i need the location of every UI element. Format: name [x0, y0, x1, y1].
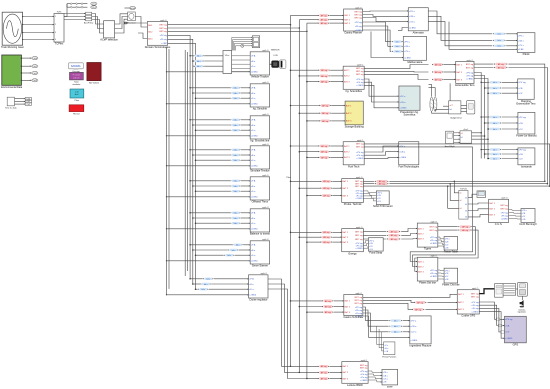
wire: [506, 39, 517, 41]
block Gadget Drive: [449, 101, 463, 120]
svg-text:cJ BKD: cJ BKD: [356, 85, 363, 87]
block Flapping Extensobile: [516, 79, 536, 106]
svg-text:cJ BK0: cJ BK0: [251, 166, 258, 168]
wire: [502, 149, 518, 151]
wire: [438, 229, 458, 231]
svg-text:AF sig: AF sig: [325, 311, 332, 314]
inline tags: [320, 120, 332, 123]
block gadget icon: [467, 101, 475, 114]
wire: [438, 275, 444, 277]
wire: [330, 145, 343, 147]
wire: [402, 45, 405, 47]
inline tags: [321, 194, 333, 197]
wire: [363, 243, 368, 245]
svg-text:AF sig: AF sig: [323, 236, 330, 239]
svg-text:cPh sig: cPh sig: [357, 82, 365, 84]
wire: [487, 128, 489, 130]
svg-text:BdT 2: BdT 2: [457, 72, 463, 74]
inline tags: [322, 311, 334, 314]
svg-text:bd.x: bd.x: [493, 82, 497, 84]
signal tag: [230, 217, 240, 220]
svg-text:wpth O: wpth O: [355, 292, 362, 295]
block Tigres: [417, 221, 438, 251]
wire: [363, 196, 376, 198]
svg-text:ChL2: ChL2: [33, 73, 38, 75]
signal tag: [230, 97, 240, 100]
svg-text:cP A: cP A: [251, 244, 256, 247]
wire: [330, 14, 344, 16]
wire: [428, 301, 458, 303]
svg-text:a3: a3: [460, 208, 462, 210]
svg-text:cJ BKD: cJ BKD: [356, 158, 363, 160]
block Town simulator: [70, 72, 84, 85]
wire: [15, 100, 26, 102]
svg-text:cJ BKD: cJ BKD: [501, 218, 508, 220]
svg-text:wpth O: wpth O: [501, 197, 508, 200]
wire: [403, 325, 410, 327]
wire net profout2: [389, 183, 547, 185]
inline tags: [319, 75, 331, 78]
svg-text:BRT sig: BRT sig: [430, 227, 438, 229]
svg-text:bd.x: bd.x: [197, 56, 201, 58]
wire: [330, 156, 343, 158]
wire: [435, 110, 448, 112]
svg-text:BdT 1: BdT 1: [418, 261, 424, 263]
wire: [67, 3, 87, 5]
wire: [330, 81, 343, 83]
junction: [290, 181, 292, 183]
wire to Presto: [377, 344, 384, 346]
svg-text:cPV sig: cPV sig: [519, 82, 527, 84]
junction: [547, 183, 549, 185]
block Preselection: [399, 86, 420, 117]
wire: [66, 4, 68, 7]
svg-text:BRT sig: BRT sig: [356, 71, 364, 73]
junction: [189, 87, 191, 89]
svg-text:bd.x: bd.x: [234, 223, 238, 225]
junction: [306, 31, 308, 33]
inline tags: [319, 69, 331, 72]
svg-text:Scientifica: Scientifica: [404, 113, 416, 117]
block middle Balance to transit: [250, 206, 270, 235]
svg-text:BdT 3: BdT 3: [343, 242, 349, 244]
svg-text:Environmental Data: Environmental Data: [1, 86, 23, 89]
svg-text:bd.x: bd.x: [202, 289, 206, 291]
block C.U.S.: [489, 197, 509, 226]
port tag: [130, 6, 136, 9]
wire: [243, 244, 250, 246]
wire: [364, 65, 428, 69]
wire: [196, 190, 231, 192]
wire: [461, 105, 467, 107]
wire: [15, 103, 26, 105]
svg-text:cPV sig: cPV sig: [466, 72, 474, 74]
junction: [299, 187, 301, 189]
inline tags: [322, 300, 334, 303]
signal tag: [230, 124, 240, 127]
svg-text:bd.x: bd.x: [234, 120, 238, 122]
svg-text:Plates Chit bite: Plates Chit bite: [442, 283, 460, 287]
junction: [290, 105, 292, 107]
svg-text:b4: b4: [465, 217, 467, 219]
svg-text:AF sig: AF sig: [321, 151, 328, 154]
gain marker: [81, 3, 83, 5]
wire: [479, 302, 504, 319]
svg-text:cPh sig: cPh sig: [501, 215, 509, 217]
svg-text:bd.x: bd.x: [234, 181, 238, 183]
block Casino Planner: [344, 6, 363, 34]
wire: [196, 159, 231, 161]
svg-text:TCPx25: TCPx25: [460, 188, 467, 190]
wire: [299, 112, 319, 114]
wire: [479, 305, 504, 325]
wire: [402, 50, 405, 52]
wire: [167, 165, 251, 167]
block Food Strap: [368, 238, 383, 255]
svg-text:bd.x: bd.x: [493, 154, 497, 156]
wire: [502, 153, 518, 155]
svg-text:wpth O: wpth O: [160, 19, 167, 22]
wire: [363, 30, 392, 51]
wire: [438, 237, 444, 239]
wire: [364, 70, 428, 73]
signal tag: [489, 153, 502, 156]
block Mathematica: [403, 36, 426, 64]
svg-text:cJ BKD: cJ BKD: [466, 78, 473, 80]
svg-text:b1: b1: [465, 197, 467, 199]
svg-text:BdT 2: BdT 2: [418, 233, 424, 235]
svg-text:BdT 2: BdT 2: [344, 20, 350, 22]
signal tag: [458, 225, 472, 228]
svg-text:cJ BK0: cJ BK0: [411, 340, 418, 342]
svg-text:bd.x: bd.x: [234, 150, 238, 152]
svg-text:cP A: cP A: [251, 212, 256, 215]
wire: [332, 236, 341, 238]
inline tags: [432, 63, 444, 66]
svg-text:BRT sig: BRT sig: [356, 144, 364, 146]
svg-text:BdT 2: BdT 2: [343, 188, 349, 190]
svg-text:BRT sig: BRT sig: [355, 300, 363, 302]
svg-text:BdT 1: BdT 1: [418, 228, 424, 230]
wire: [307, 22, 318, 24]
svg-text:BdT 2: BdT 2: [345, 306, 351, 308]
svg-text:AF sig: AF sig: [462, 226, 469, 229]
signal tag: [389, 319, 402, 322]
wire: [125, 7, 130, 9]
junction: [290, 145, 292, 147]
block Persistent: [127, 12, 136, 25]
junction: [447, 185, 449, 187]
wire: [474, 63, 493, 65]
wire: [239, 249, 250, 251]
wire: [307, 378, 318, 380]
svg-text:bd.x: bd.x: [394, 326, 398, 328]
svg-text:cCB: cCB: [519, 123, 524, 125]
wire: [364, 74, 428, 79]
inline tags: [321, 236, 333, 239]
inline tags: [432, 71, 444, 74]
svg-text:Food Strap: Food Strap: [369, 251, 382, 255]
svg-text:bd.x: bd.x: [493, 88, 497, 90]
junction: [189, 180, 191, 182]
svg-text:cPh sig: cPh sig: [357, 155, 365, 157]
wire: [334, 306, 344, 308]
svg-text:BdT 3: BdT 3: [344, 157, 350, 159]
wire: [429, 88, 436, 97]
wire: [298, 20, 300, 373]
wire: [330, 22, 344, 24]
svg-text:Ch2: Ch2: [27, 104, 30, 106]
inline tags: [319, 145, 331, 148]
wire: [193, 124, 230, 126]
svg-text:Tigres: Tigres: [424, 247, 432, 251]
svg-text:Cutthe GPS: Cutthe GPS: [461, 314, 475, 318]
svg-text:Lettuce BMW: Lettuce BMW: [347, 383, 363, 387]
bus marker: [241, 44, 244, 47]
junction: [192, 185, 194, 187]
svg-text:P comm: P comm: [73, 75, 81, 77]
svg-text:BdT 2: BdT 2: [343, 372, 349, 374]
svg-text:AF sig: AF sig: [435, 78, 442, 81]
inline tags: [322, 305, 334, 308]
wire: [481, 149, 488, 151]
svg-text:cPV sig: cPV sig: [430, 237, 438, 239]
junction: [21, 57, 22, 58]
wire: [193, 185, 230, 187]
svg-text:BdT 3: BdT 3: [489, 214, 495, 216]
signal tag: [233, 244, 243, 247]
svg-text:BRT sig: BRT sig: [354, 17, 362, 19]
wire net profout3: [363, 185, 549, 187]
wire: [468, 215, 489, 217]
svg-text:bd.x: bd.x: [493, 149, 497, 151]
svg-text:VPan: VPan: [225, 55, 229, 57]
svg-text:AF sig: AF sig: [462, 229, 469, 232]
wire: [468, 194, 477, 197]
svg-text:wpth O: wpth O: [262, 206, 269, 209]
wire: [190, 278, 203, 280]
inline tags: [321, 187, 333, 190]
svg-text:AF sig: AF sig: [415, 308, 422, 311]
junction: [21, 72, 22, 73]
wire: [241, 97, 250, 99]
junction: [166, 71, 167, 72]
wire: [21, 65, 31, 67]
svg-text:cPh sig: cPh sig: [355, 310, 363, 312]
signal tag: [230, 222, 240, 225]
block RV test: [69, 105, 84, 116]
svg-text:GPS: GPS: [513, 342, 519, 346]
junction: [299, 75, 301, 77]
svg-text:BdT 2: BdT 2: [346, 113, 352, 115]
block printer: [495, 284, 504, 298]
svg-text:AF sig: AF sig: [498, 66, 505, 69]
signal tag: [230, 185, 240, 188]
block Professional Technik: [342, 176, 364, 206]
block Cutthe GPS: [457, 287, 479, 318]
wire net Bd3: [168, 30, 307, 32]
svg-text:Gadget Drive: Gadget Drive: [450, 116, 463, 119]
svg-text:wpth O: wpth O: [467, 59, 474, 62]
signal tag: [494, 66, 508, 69]
svg-text:cCV a: cCV a: [404, 51, 411, 53]
wire: [299, 19, 318, 21]
svg-text:AF sig: AF sig: [321, 19, 328, 22]
junction: [299, 236, 301, 238]
junction: [192, 154, 194, 156]
block Piknik: [517, 33, 535, 56]
svg-text:a1: a1: [461, 133, 463, 135]
wire: [190, 212, 230, 214]
wire net casino blue 4: [363, 316, 410, 337]
svg-text:cPV sig: cPV sig: [519, 149, 527, 151]
junction: [487, 158, 489, 160]
wire: [167, 228, 251, 230]
signal tag: [389, 325, 402, 328]
wire: [168, 35, 191, 278]
svg-text:cPh sig: cPh sig: [430, 273, 438, 275]
wire: [241, 119, 250, 121]
wire: [299, 236, 320, 238]
svg-text:AF sig: AF sig: [322, 112, 329, 115]
wire: [363, 22, 392, 42]
block hg. Scientifica: [343, 64, 364, 93]
signal tag: [230, 129, 240, 132]
svg-text:wpth O: wpth O: [430, 221, 437, 224]
block machine: [518, 282, 528, 296]
wire: [92, 20, 104, 34]
signal tag: [392, 40, 403, 43]
wire: [196, 97, 231, 99]
svg-text:borwards: borwards: [521, 164, 532, 168]
svg-text:BdT 1: BdT 1: [345, 301, 351, 303]
wire: [23, 16, 54, 18]
svg-text:cPh sig: cPh sig: [430, 240, 438, 242]
inline tags: [321, 180, 333, 183]
wire: [241, 190, 250, 192]
svg-text:TCPx: TCPx: [57, 12, 62, 14]
svg-text:bd.x: bd.x: [493, 117, 497, 119]
signal tag: [489, 81, 502, 84]
wire: [364, 85, 399, 107]
wire: [444, 79, 456, 81]
svg-text:wpth O: wpth O: [430, 255, 437, 258]
wire: [291, 69, 319, 71]
wire: [235, 254, 251, 256]
svg-text:simulator: simulator: [72, 83, 80, 86]
svg-text:BRT sig: BRT sig: [500, 208, 508, 210]
svg-text:ACeP flow: ACeP flow: [84, 21, 94, 24]
junction: [192, 124, 194, 126]
block Power Table: [444, 237, 459, 254]
wire: [403, 331, 410, 333]
svg-text:bd.x: bd.x: [228, 255, 232, 257]
signal tag: [230, 119, 240, 122]
signal tag: [489, 87, 502, 90]
wire: [509, 209, 521, 212]
junction: [306, 157, 308, 159]
svg-text:bd.x: bd.x: [204, 284, 208, 286]
svg-text:AF sig: AF sig: [321, 69, 328, 72]
wire: [241, 154, 250, 156]
stub box: [501, 331, 505, 334]
wire: [364, 146, 399, 152]
wire: [196, 222, 231, 224]
junction: [22, 16, 23, 17]
svg-text:Ingredient Placture: Ingredient Placture: [410, 344, 432, 348]
wire: [209, 288, 249, 290]
svg-text:BdT 1: BdT 1: [343, 181, 349, 183]
wire: [307, 311, 322, 313]
block Fuel Technologies: [398, 142, 420, 169]
svg-text:AF sig: AF sig: [323, 231, 330, 234]
svg-text:cCB: cCB: [519, 88, 524, 90]
block Concept: [69, 63, 84, 73]
svg-text:cCB a: cCB a: [400, 102, 407, 104]
block Alternator: [408, 8, 428, 35]
wire: [128, 22, 148, 24]
svg-text:cPV a: cPV a: [404, 41, 410, 43]
wire: [472, 132, 482, 134]
inline tags: [320, 112, 332, 115]
block middle hg. Simulink line: [250, 113, 270, 142]
svg-text:bd.x: bd.x: [234, 93, 238, 95]
svg-text:AF sig: AF sig: [321, 371, 328, 374]
svg-text:cJ BKD: cJ BKD: [472, 312, 479, 314]
wire: [115, 17, 128, 29]
wire: [135, 17, 147, 28]
svg-text:Casino Terminals: Casino Terminals: [343, 315, 364, 319]
svg-text:cPV sig: cPV sig: [356, 152, 364, 154]
svg-text:BRT sig: BRT sig: [355, 297, 363, 299]
signal tag: [489, 116, 502, 119]
svg-text:AF sig: AF sig: [321, 75, 328, 78]
gain marker: [76, 6, 78, 8]
svg-text:BRT sig: BRT sig: [471, 296, 479, 298]
svg-text:bd.x: bd.x: [197, 66, 201, 68]
inline tags: [432, 78, 444, 81]
block Domain Terminals: [145, 19, 171, 49]
svg-text:cJ BKD: cJ BKD: [356, 198, 363, 200]
wire: [363, 294, 458, 297]
svg-text:AF sig: AF sig: [321, 81, 328, 84]
svg-text:cP a: cP a: [385, 345, 389, 347]
wire: [363, 18, 409, 22]
wire: [67, 6, 87, 8]
wire: [115, 19, 128, 33]
svg-text:cCB a: cCB a: [383, 375, 388, 377]
svg-text:SENSOR: SENSOR: [271, 50, 280, 52]
port tag: [32, 79, 38, 82]
svg-text:Train Running Gear: Train Running Gear: [1, 45, 24, 49]
svg-text:bd.x: bd.x: [234, 213, 238, 215]
svg-text:cP A: cP A: [249, 278, 254, 281]
svg-text:bd.x: bd.x: [396, 41, 400, 43]
svg-text:Cruise regulator: Cruise regulator: [249, 298, 268, 302]
wire: [401, 229, 417, 232]
svg-text:bd.x: bd.x: [234, 218, 238, 220]
junction: [306, 378, 308, 380]
inline tags: [318, 18, 330, 21]
junction: [192, 60, 194, 62]
speaker icon: [518, 300, 526, 314]
inline tags: [318, 365, 330, 368]
svg-text:Vehicle Tracker: Vehicle Tracker: [251, 75, 269, 79]
wire: [21, 79, 31, 81]
svg-text:wpth O: wpth O: [262, 238, 269, 241]
svg-text:cJ BK0: cJ BK0: [251, 136, 258, 138]
wire: [241, 129, 250, 131]
